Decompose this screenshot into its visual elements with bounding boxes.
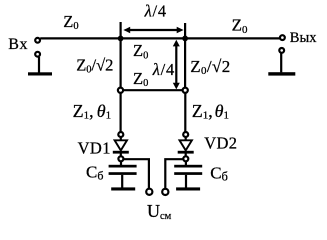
svg-text:VD2: VD2	[204, 133, 237, 152]
svg-text:λ/4: λ/4	[152, 60, 175, 79]
svg-text:λ/4: λ/4	[144, 2, 167, 21]
svg-text:Z1,: Z1,	[73, 101, 94, 122]
svg-text:Вых: Вых	[290, 30, 317, 46]
svg-text:Z0/√2: Z0/√2	[190, 57, 230, 77]
svg-text:VD1: VD1	[78, 138, 111, 157]
svg-text:Z1,: Z1,	[192, 101, 213, 122]
svg-text:Z0/√2: Z0/√2	[76, 55, 113, 75]
svg-text:Вх: Вх	[8, 36, 28, 53]
